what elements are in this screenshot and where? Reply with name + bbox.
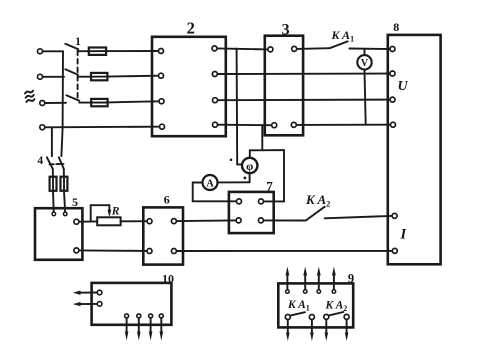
svg-text:2: 2: [187, 19, 195, 38]
box 9 up arrow 2: [304, 274, 306, 289]
svg-text:5: 5: [72, 195, 78, 209]
input terminal 3: [40, 101, 45, 106]
box 5 terminal top 1: [52, 212, 56, 216]
box 7: [229, 192, 274, 233]
junction dot: [244, 177, 247, 180]
box 8 terminal I2: [392, 248, 397, 253]
wire box3 to KA1 contact: [297, 47, 330, 50]
box 9 terminal top 3: [317, 290, 321, 294]
wire KA2 to box 8: [325, 216, 392, 218]
wire fuse 3 to box 2: [108, 101, 159, 102]
box 2 terminal left 1: [159, 49, 164, 54]
box 6 terminal left 1: [147, 219, 152, 224]
box 3 terminal bottom-right: [291, 122, 296, 127]
box 8 terminal U1: [390, 47, 395, 52]
wire fuse 5 to box 5: [64, 191, 65, 212]
box 6: [143, 207, 183, 264]
wire blade left to fuse 4: [52, 169, 54, 177]
box 10 terminal bottom 3: [149, 314, 153, 318]
rheostat wiper arrowhead: [108, 210, 112, 217]
wire switch2 to fuse 2: [78, 76, 91, 78]
box 10 terminal bottom 1: [125, 314, 129, 318]
box 10 down arrow 2: [138, 319, 140, 334]
box 2 terminal left 2: [159, 73, 164, 78]
svg-text:R: R: [111, 206, 120, 218]
box 9 up arrow 4: [333, 274, 335, 289]
svg-text:8: 8: [393, 20, 399, 34]
relay contact KA1 blade: [330, 41, 348, 48]
wire fuse 1 to box 2: [106, 50, 158, 52]
relay contact KA1 terminal a: [285, 315, 290, 320]
voltmeter V: [357, 55, 371, 69]
box 2 terminal right 2: [212, 72, 217, 77]
switch 4 linkage dashed: [50, 163, 64, 165]
box 9 terminal top 4: [332, 290, 336, 294]
box 5 terminal right 1: [74, 219, 79, 224]
switch 1 blade pole 2: [65, 69, 78, 75]
box 8 terminal I1: [392, 213, 397, 218]
box 2: [152, 37, 226, 136]
box 9 terminal top 1: [286, 290, 290, 294]
input terminal 4: [40, 125, 45, 130]
relay contact KA1 blade: [291, 312, 305, 315]
box 5: [35, 208, 82, 260]
box 2 terminal right 1: [212, 46, 217, 51]
junction dot: [230, 159, 233, 162]
box 8 terminal U2: [390, 71, 395, 76]
wire box7 to box6: [177, 219, 235, 222]
box 3 terminal bottom-left: [272, 123, 277, 128]
box 9 down arrow 3: [325, 320, 327, 334]
relay contact KA2 terminal a: [324, 314, 329, 319]
box 7 terminal bottom-left: [236, 218, 241, 223]
wire switch3 to fuse 3: [79, 102, 91, 104]
wire box6 to box8 current line: [177, 250, 392, 252]
box 8 terminal U4: [391, 122, 396, 127]
box 9 down arrow 4: [346, 320, 348, 334]
svg-text:A: A: [206, 178, 214, 189]
box 10 down arrow 3: [150, 319, 152, 334]
svg-text:1: 1: [75, 36, 81, 48]
phase meter bottom stub: [249, 175, 251, 183]
relay contact KA2 blade: [306, 207, 325, 221]
voltmeter V stub top: [364, 49, 366, 54]
svg-text:9: 9: [348, 272, 354, 286]
switch 4 blade right: [59, 157, 64, 169]
wire phase tap down to phase meter left: [237, 49, 242, 165]
box 6 terminal right 2: [171, 249, 176, 254]
box 9 down arrow 2: [311, 320, 313, 334]
wire vertical bus from phase 1 down to switch 4: [61, 51, 63, 156]
input terminal 1: [38, 49, 43, 54]
box 3 terminal top-right: [292, 46, 297, 51]
svg-text:φ: φ: [246, 161, 253, 173]
fuse FU4: [50, 177, 57, 191]
relay contact KA2 terminal b: [344, 314, 349, 319]
svg-text:10: 10: [162, 272, 174, 286]
switch 4 drop wire left: [51, 128, 53, 156]
wire line4 tap down: [261, 125, 263, 150]
relay contact KA1 terminal b: [309, 315, 314, 320]
box 10 terminal bottom 2: [137, 314, 141, 318]
svg-text:V: V: [361, 58, 369, 69]
box 9 down arrow 1: [287, 320, 289, 334]
box 10 terminal left 1: [97, 290, 102, 295]
switch 1 blade pole 3: [66, 95, 79, 101]
relay contact KA2 blade: [330, 312, 344, 315]
phase meter: [242, 158, 257, 173]
svg-text:4: 4: [37, 155, 43, 167]
box 8 terminal U3: [390, 97, 395, 102]
wire box5 to box6 bottom: [80, 249, 147, 252]
wire ammeter to box 7 top-left: [193, 183, 236, 202]
box 10 output arrow left 2: [78, 303, 97, 305]
rheostat wiper bypass wire: [91, 205, 110, 221]
fuse FU2: [91, 73, 107, 80]
box 10 terminal bottom 4: [159, 314, 163, 318]
wire neutral line 4 from terminal to box 2: [45, 126, 158, 129]
box 10 output arrow left 1: [78, 292, 97, 294]
switch 1 linkage dashed: [77, 51, 79, 99]
ammeter A: [203, 175, 218, 190]
box 10: [92, 283, 172, 325]
rheostat R body: [97, 217, 120, 225]
input terminal 2: [38, 74, 43, 79]
wire blade right to fuse 5: [63, 169, 65, 177]
wire box2 to box3 line 4: [218, 124, 271, 127]
box 10 down arrow 1: [126, 319, 128, 334]
wire box2 to box8 line 2: [218, 73, 389, 76]
box 6 terminal right 1: [171, 219, 176, 224]
box 5 terminal right 2: [74, 248, 79, 253]
wire phase 1 from terminal to switch: [43, 50, 63, 52]
wire KA1 to box 8: [349, 48, 389, 51]
wire phase 3 from terminal to switch: [45, 102, 66, 104]
svg-text:U: U: [398, 79, 409, 94]
fuse FU3: [91, 99, 107, 106]
box 3 terminal top-left: [268, 47, 273, 52]
switch 1 blade pole 1: [65, 44, 78, 49]
wire box2 to box3 line 1: [218, 48, 268, 49]
box 10 down arrow 4: [160, 319, 162, 334]
box 2 terminal right 3: [213, 98, 218, 103]
box 7 terminal top-left: [237, 199, 242, 204]
box 2 terminal left 4: [160, 124, 165, 129]
fuse FU5: [61, 177, 68, 191]
box 7 terminal top-right: [259, 199, 264, 204]
wire fuse 2 to box 2: [107, 75, 158, 78]
box 7 terminal bottom-right: [258, 218, 263, 223]
wire phase meter top node: [250, 150, 284, 201]
wire switch1 to fuse 1: [78, 50, 89, 52]
wire ammeter to phase meter bottom: [218, 181, 249, 183]
box 9 up arrow 3: [318, 274, 320, 289]
wire phase 2 from terminal to switch: [43, 76, 64, 78]
box 9 up arrow 1: [286, 274, 288, 289]
box 10 terminal left 2: [97, 302, 102, 307]
wire rheostat to box 6: [121, 220, 147, 222]
box 9 terminal top 2: [303, 290, 307, 294]
voltmeter V stub down to line 4: [365, 70, 366, 124]
box 2 terminal right 4: [213, 122, 218, 127]
svg-text:6: 6: [164, 193, 170, 207]
box 2 terminal left 3: [159, 99, 164, 104]
box 3: [265, 36, 303, 136]
box 8: [388, 35, 441, 264]
box 9: [278, 283, 353, 327]
box 6 terminal left 2: [147, 249, 152, 254]
wire box3 to box8 line 4: [297, 124, 390, 126]
wire box7 to KA2 contact: [264, 219, 306, 221]
svg-text:3: 3: [282, 22, 290, 39]
AC source symbol ~: [25, 91, 35, 102]
wire fuse 4 to box 5: [52, 191, 55, 212]
wire box2 to box8 line 3: [218, 99, 389, 102]
box 5 terminal top 2: [63, 212, 67, 216]
fuse FU1: [89, 48, 106, 55]
switch 4 blade left: [47, 157, 53, 169]
wire box5 to rheostat: [80, 220, 98, 222]
svg-text:7: 7: [266, 179, 273, 194]
